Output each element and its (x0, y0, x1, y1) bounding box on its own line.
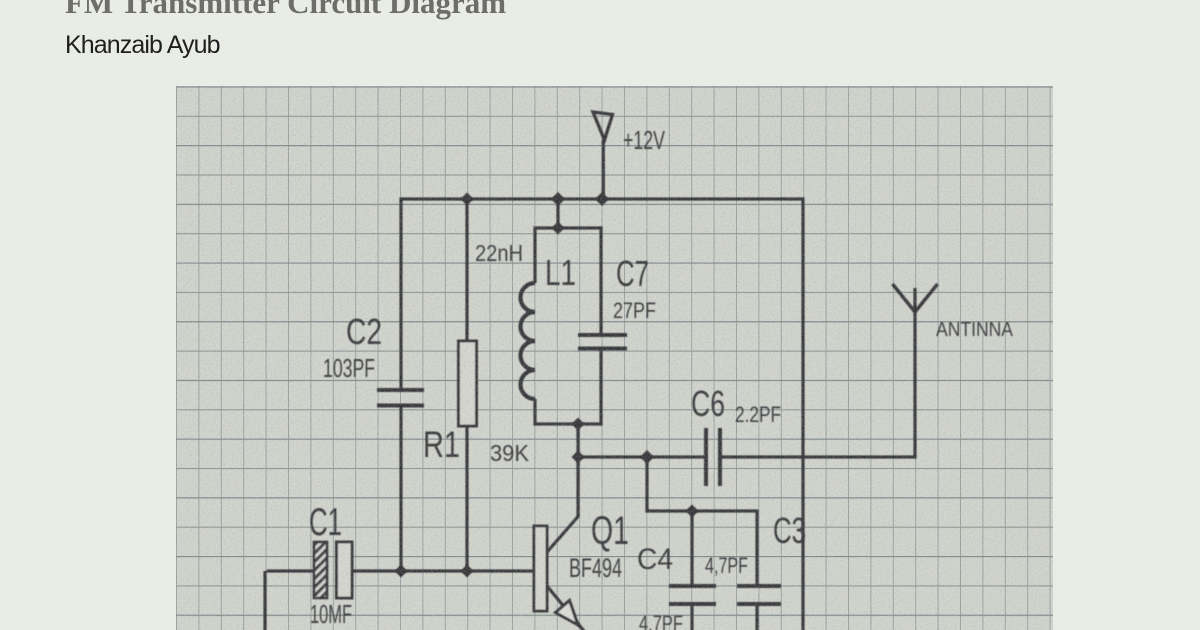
wire: tank left lower (533, 399, 536, 426)
wire: base wire from C1 to Q1 (352, 569, 535, 572)
wire: tank top side (535, 226, 601, 229)
transistor Q1 emitter arrow (open) (556, 601, 579, 626)
wire: C4 upper drop (690, 511, 693, 586)
wire: collector diagonal into Q1 (547, 516, 579, 552)
paper noise overlay (176, 86, 1053, 630)
transistor Q1 base bar (534, 526, 547, 611)
capacitor C1 right plate (337, 542, 353, 598)
wire: C2 branch upper segment (399, 197, 402, 390)
wire: R1 branch lower segment (465, 426, 468, 571)
junction dot C4 branch (686, 505, 699, 518)
junction dot base wire at C2 (395, 565, 408, 578)
inductor L1 coil (521, 283, 536, 399)
wire: emitter lead (547, 586, 584, 630)
wire: C6 right plate to antenna (720, 455, 917, 458)
junction dot on rail at +12V stem (595, 192, 609, 206)
resistor R1 body (459, 341, 477, 426)
wire: C1 left lead (267, 569, 314, 572)
wire: tank stem from rail (556, 199, 559, 228)
wire: input drop at left (263, 571, 266, 630)
wire: right 4.7PF cap upper drop (755, 511, 758, 586)
wire: C4 lower stub (690, 604, 693, 630)
author (65, 31, 220, 61)
antenna arms (893, 284, 938, 312)
wire: top supply rail (401, 197, 803, 200)
junction dot C6 wire branch (640, 450, 654, 464)
title (65, 0, 506, 18)
junction dot collector-C6 node (572, 451, 585, 464)
capacitor C2 plates (377, 390, 424, 406)
wire: tank right lower (from C7 bottom plate) (599, 349, 602, 426)
wire: C2 branch lower segment (399, 406, 402, 572)
capacitor C6 plates (706, 428, 720, 486)
junction dot on rail at tank stem (551, 192, 565, 206)
capacitor C1 hatched plate (314, 542, 327, 598)
junction dot tank top (552, 222, 565, 235)
capacitor C4 plates (669, 586, 716, 604)
capacitor C7 plates (578, 335, 627, 349)
scanned graph paper sheet (176, 86, 1053, 630)
wire: branch from C6 node down (645, 457, 648, 513)
wire: +12V stem (602, 140, 605, 199)
wire: tank bottom side (535, 422, 601, 425)
wire: antenna stem (913, 288, 916, 459)
capacitor (right 4.7PF) plates (737, 586, 781, 604)
wire: tank left upper (533, 226, 536, 283)
wire: collector vertical (576, 424, 579, 517)
junction dot on rail at R1 branch (461, 193, 474, 206)
junction dot base wire at R1 (461, 565, 474, 578)
wire: tank right upper (to C7 top plate) (599, 226, 602, 335)
wire: lower branch horizontal (647, 509, 759, 512)
wire: R1 branch upper segment (465, 199, 468, 341)
junction dot tank bottom / collector (572, 418, 585, 431)
wire: collector node to C6 left plate (578, 455, 706, 458)
wire: C3 branch vertical (rail right end down past bottom) (801, 197, 804, 630)
wire: right 4.7PF cap lower stub (755, 604, 758, 630)
power symbol +12V triangle (593, 112, 613, 140)
